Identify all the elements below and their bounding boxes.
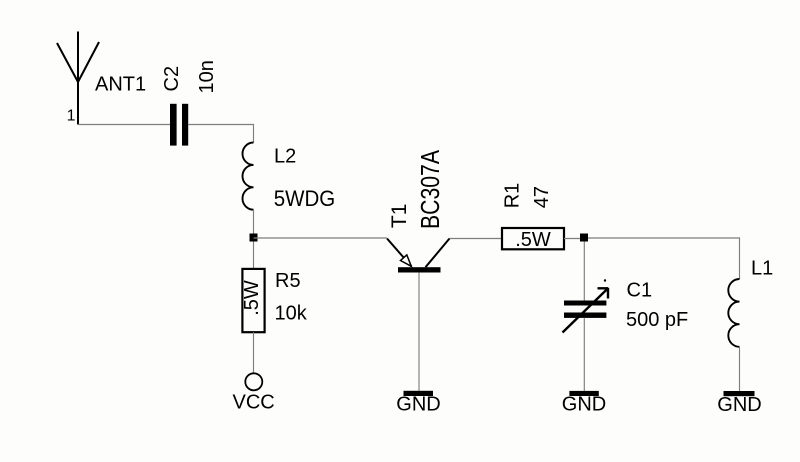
wire node2 down to C1 (583, 242, 585, 301)
svg-text:R1: R1 (502, 183, 524, 209)
inductor L2 (243, 143, 254, 210)
wire L2 to node (253, 210, 255, 238)
node junction 2 (580, 234, 588, 242)
wire C1 to GND (583, 318, 585, 391)
wire node2 to L1 corner (588, 238, 740, 279)
svg-text:1: 1 (67, 108, 76, 125)
svg-text:.5W: .5W (241, 280, 263, 316)
wire antenna to C2 (78, 124, 170, 126)
svg-text:500 pF: 500 pF (626, 309, 688, 331)
svg-text:10k: 10k (275, 302, 308, 324)
svg-text:47: 47 (531, 186, 553, 208)
svg-text:5WDG: 5WDG (274, 186, 336, 211)
svg-text:GND: GND (717, 394, 761, 416)
wire L1 to GND (739, 347, 741, 391)
svg-text:T1: T1 (388, 204, 411, 229)
svg-text:C2: C2 (161, 66, 183, 92)
svg-text:10n: 10n (196, 60, 218, 93)
node junction 1 (250, 234, 258, 242)
ground under T1 (404, 391, 434, 396)
svg-text:R5: R5 (275, 270, 301, 292)
ground under C1 (569, 391, 598, 396)
svg-text:ANT1: ANT1 (95, 74, 146, 96)
svg-text:BC307A: BC307A (415, 149, 445, 229)
wire C2 to L2 (188, 125, 253, 143)
svg-text:.5W: .5W (515, 229, 551, 251)
capacitor C1 (variable) (564, 301, 606, 306)
resistor R1 (502, 228, 564, 249)
wire R5 to VCC (253, 332, 255, 373)
svg-text:GND: GND (396, 394, 440, 416)
svg-text:L1: L1 (751, 258, 773, 280)
wire node to R5 (253, 242, 255, 269)
svg-text:VCC: VCC (233, 392, 275, 414)
capacitor C2 (170, 104, 177, 146)
wire R1 to node 2 (564, 238, 584, 240)
ground under L1 (724, 391, 755, 396)
wire T1 base to GND (418, 272, 420, 390)
resistor R5 (242, 269, 264, 332)
antenna ANT1 (57, 32, 99, 125)
transistor T1 (387, 239, 450, 273)
supply VCC (245, 373, 262, 390)
svg-text:L2: L2 (274, 146, 296, 168)
wire node to T1 emitter (254, 237, 388, 239)
wire T1 collector to R1 (450, 238, 503, 240)
svg-text:C1: C1 (627, 279, 653, 301)
inductor L1 (728, 279, 739, 347)
svg-text:GND: GND (562, 394, 606, 416)
